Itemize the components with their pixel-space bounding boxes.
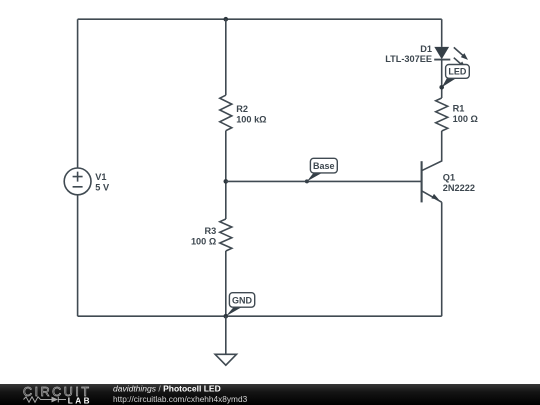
svg-text:Q1: Q1 [443, 172, 455, 182]
svg-text:LED: LED [448, 67, 467, 77]
flag Base [305, 158, 337, 183]
resistor R1 [436, 98, 448, 131]
diode D1 cathode bar [434, 59, 450, 61]
label V1 5V [95, 172, 110, 193]
svg-text:V1: V1 [95, 172, 106, 182]
logo CIRCUIT text [23, 385, 92, 399]
wire LED top [441, 19, 443, 47]
svg-text:R2: R2 [236, 104, 248, 114]
wire middle branch upper [225, 19, 227, 95]
transistor Q1 emitter [422, 191, 442, 202]
svg-text:100 Ω: 100 Ω [191, 236, 216, 246]
label Q1 2N2222 [443, 172, 475, 193]
flag LED [442, 65, 470, 88]
svg-text:GND: GND [232, 296, 253, 306]
wire base [226, 180, 422, 182]
svg-text:Base: Base [313, 161, 335, 171]
svg-text:R1: R1 [453, 104, 465, 114]
transistor Q1 base bar [421, 161, 423, 202]
diode D1 LED triangle [434, 47, 449, 59]
logo resistor zigzag [24, 397, 48, 402]
wire top rail [78, 18, 442, 20]
svg-text:100 Ω: 100 Ω [453, 114, 478, 124]
wire bottom rail [78, 315, 442, 317]
ground symbol [215, 354, 236, 365]
node GND junction [224, 314, 229, 319]
svg-text:http://circuitlab.com/cxhehh4x: http://circuitlab.com/cxhehh4x8ymd3 [113, 394, 248, 404]
label R2 100 kOhm [236, 104, 266, 125]
footer url line [113, 394, 248, 404]
voltage source V1 [64, 168, 91, 195]
label R1 100 Ohm [453, 104, 478, 125]
label R3 100 Ohm [191, 226, 216, 247]
node base junction [224, 179, 229, 184]
wire middle branch lower [225, 251, 227, 316]
wire left rail upper [77, 19, 79, 168]
wire middle branch mid [225, 131, 227, 219]
LED arrow 2 [454, 58, 466, 69]
wire emitter down [441, 202, 443, 316]
svg-text:5 V: 5 V [95, 183, 110, 193]
wire R1 to collector [422, 131, 442, 171]
svg-text:2N2222: 2N2222 [443, 183, 475, 193]
LED arrow 1 [454, 47, 468, 60]
wire left rail lower [77, 195, 79, 316]
logo LAB text [68, 396, 92, 405]
flag GND [226, 293, 255, 317]
wire ground stub [225, 316, 227, 354]
label D1 LTL-307EE [385, 44, 432, 64]
svg-text:100 kΩ: 100 kΩ [236, 115, 266, 125]
node LED anchor [439, 85, 444, 90]
footer title line [113, 384, 221, 394]
logo diode symbol [48, 397, 67, 403]
svg-text:LTL-307EE: LTL-307EE [385, 54, 432, 64]
resistor R3 [220, 219, 232, 251]
svg-text:davidthings / Photocell LED: davidthings / Photocell LED [113, 384, 221, 394]
wire LED to R1 [441, 60, 443, 98]
svg-text:D1: D1 [420, 44, 432, 54]
svg-text:LAB: LAB [68, 396, 92, 405]
resistor R2 [220, 95, 232, 131]
node top junction [224, 17, 229, 22]
footer bar [0, 384, 540, 405]
svg-text:R3: R3 [204, 226, 216, 236]
